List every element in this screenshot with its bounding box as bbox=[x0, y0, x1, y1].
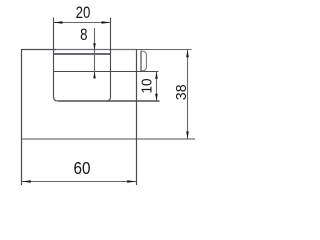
svg-text:8: 8 bbox=[80, 26, 87, 45]
svg-text:10: 10 bbox=[139, 78, 156, 93]
svg-text:20: 20 bbox=[76, 4, 91, 23]
svg-text:38: 38 bbox=[173, 84, 189, 100]
svg-text:60: 60 bbox=[74, 159, 91, 178]
